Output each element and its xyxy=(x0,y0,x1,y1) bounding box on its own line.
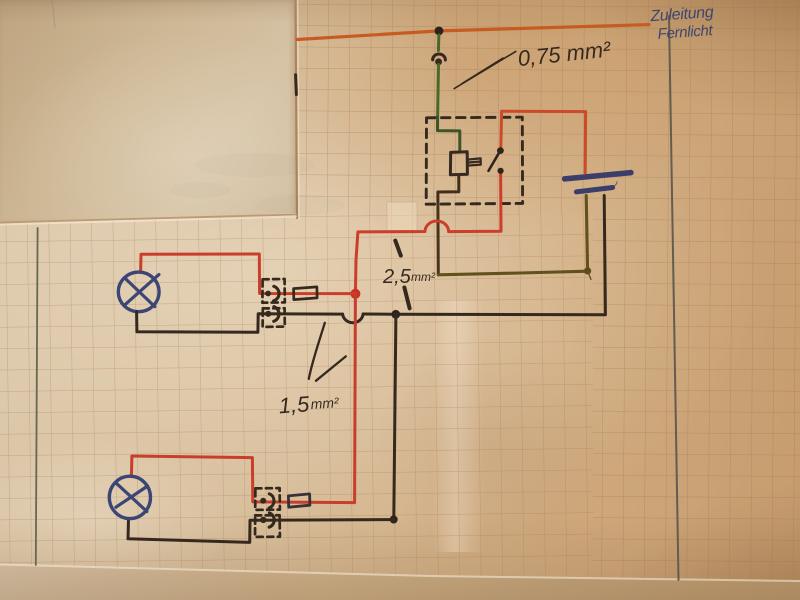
wire: green down into relay box xyxy=(436,65,440,118)
relay switch lever xyxy=(489,152,500,171)
tape joining sheets xyxy=(387,202,417,233)
main graph sheet grid xyxy=(0,210,600,580)
battery G1 minus plate xyxy=(576,188,612,192)
black tick on sheet edge xyxy=(294,75,298,95)
wire: black run to node C and to battery minus xyxy=(363,196,605,315)
connector: inline plug-socket on green wire xyxy=(433,54,446,65)
sheet edge: main sheet bottom edge highlight xyxy=(0,565,800,582)
label: 2,5 mm2 xyxy=(382,266,436,288)
margin line right (right sheet) xyxy=(669,16,679,580)
relay coil actuator flag xyxy=(467,158,480,165)
connector X2 (upper black) xyxy=(263,307,285,327)
wire: coil return inside box xyxy=(438,175,459,205)
relay K1 dashed enclosure xyxy=(426,117,522,204)
label: 0,75 mm2 xyxy=(517,37,613,72)
relay coil xyxy=(450,152,467,175)
connector X4 (lower black) xyxy=(255,513,280,537)
label: Zuleitung Fernlicht xyxy=(649,4,716,43)
wire: coil return down to ground run xyxy=(436,204,439,275)
fuse F2 (lower) xyxy=(288,494,310,507)
node A: tap junction on supply rail xyxy=(435,27,444,36)
fold top-left corner xyxy=(52,0,55,28)
wire: green inside relay box to coil xyxy=(438,117,460,152)
wire: olive ground run to battery minus xyxy=(438,196,587,275)
node B: red distribution junction xyxy=(350,289,360,299)
wire: upper lamp black return to chassis run xyxy=(137,312,343,333)
wire: red feed battery plus to relay switch xyxy=(501,111,586,173)
wire: lower black run through connector to lower lamp xyxy=(128,520,394,543)
wire: black center drop from node C to lower circuit xyxy=(394,314,396,519)
wire hop: black dips under red vertical xyxy=(343,314,364,323)
label: 1,5 mm2 xyxy=(278,389,341,418)
right graph sheet grid xyxy=(290,0,800,590)
label pointers for 2,5 mm2 xyxy=(395,241,409,309)
wire: red node B left through fuse and connector to upper lamp xyxy=(141,254,356,294)
label pointers for 1,5 mm2 xyxy=(309,323,346,381)
battery G1 plus plate xyxy=(565,173,631,179)
label pointer for 0,75 mm2 xyxy=(454,51,516,88)
lamp E1 (upper) xyxy=(118,272,159,312)
connector X3 (lower red) xyxy=(255,488,280,510)
node: olive corner junction xyxy=(584,267,591,274)
sheet edge: right sheet left edge xyxy=(296,0,298,218)
ink bleed-through ghosts on plain sheet xyxy=(170,153,345,215)
margin line left (main sheet) xyxy=(36,228,38,565)
wire: orange supply rail (Zuleitung Fernlicht) xyxy=(297,25,649,40)
relay switch contacts xyxy=(497,147,504,154)
wire: green tap from rail down to connector xyxy=(437,35,441,51)
node C: black distribution junction xyxy=(391,310,400,319)
wire: red node B down and around to lower lamp xyxy=(131,294,355,503)
node D: lower black junction xyxy=(390,516,398,524)
sheet edge: main sheet top edge xyxy=(0,215,296,223)
wire: red from relay switch down, hop over coil wire, to node B xyxy=(355,171,501,294)
fuse F1 (upper) xyxy=(294,287,318,300)
connector X1 (upper red) xyxy=(262,279,284,303)
lamp E2 (lower) xyxy=(109,476,150,518)
